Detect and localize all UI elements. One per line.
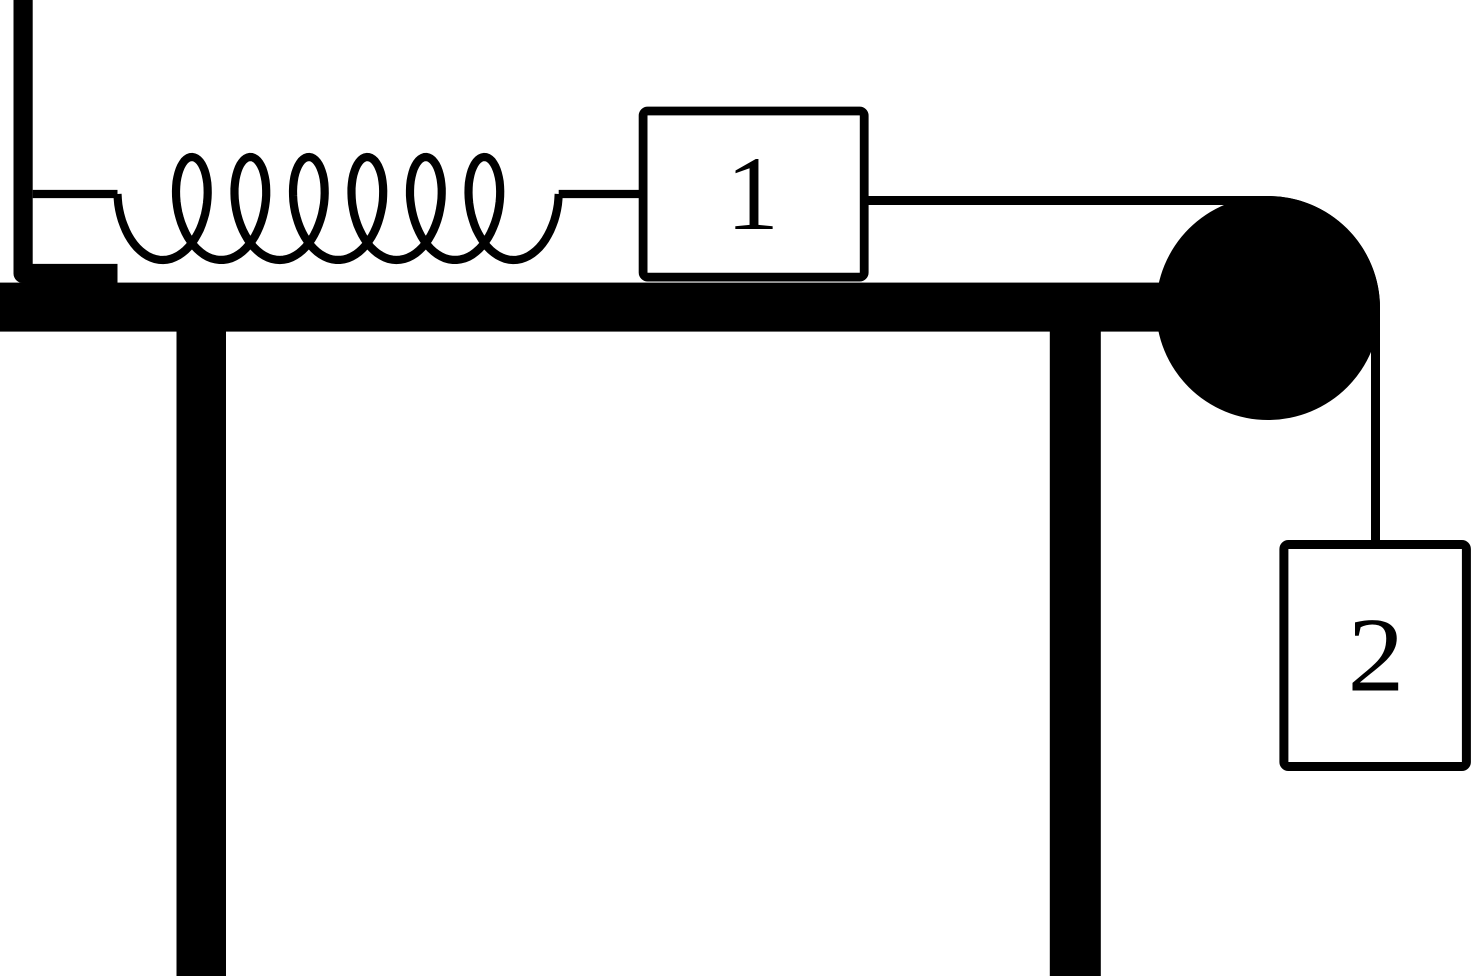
svg-text:1: 1 — [726, 135, 779, 252]
svg-text:2: 2 — [1348, 596, 1405, 714]
